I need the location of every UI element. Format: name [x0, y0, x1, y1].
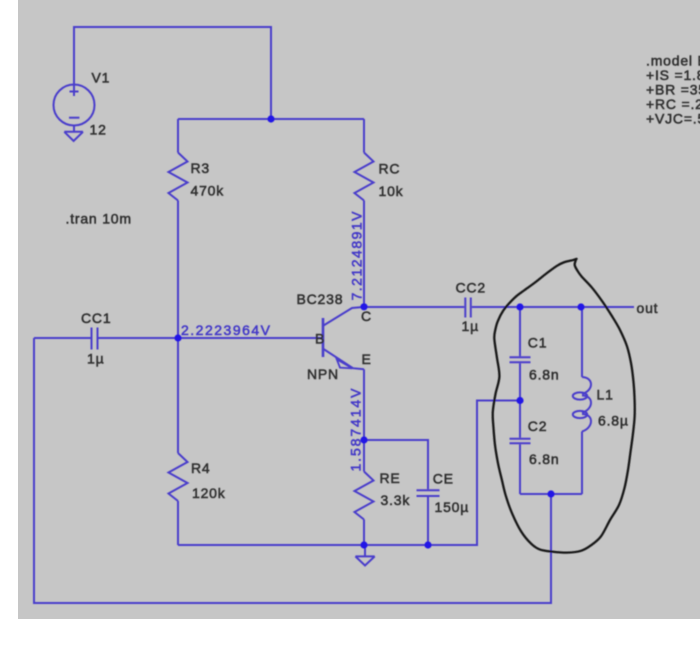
svg-text:+VJC=.58: +VJC=.58 [646, 111, 700, 127]
svg-text:BC238: BC238 [297, 291, 344, 307]
svg-text:NPN: NPN [307, 366, 339, 382]
svg-text:V1: V1 [92, 70, 111, 86]
svg-text:CC1: CC1 [81, 310, 111, 326]
svg-text:120k: 120k [192, 485, 226, 501]
svg-text:10k: 10k [379, 183, 404, 199]
svg-text:470k: 470k [191, 183, 225, 199]
svg-text:C2: C2 [528, 418, 548, 434]
svg-text:L1: L1 [597, 387, 614, 403]
svg-text:12: 12 [90, 122, 107, 138]
svg-text:RE: RE [380, 470, 401, 486]
svg-text:CE: CE [433, 471, 454, 487]
svg-text:C: C [361, 308, 372, 324]
svg-text:RC: RC [379, 161, 401, 177]
svg-text:3.3k: 3.3k [381, 492, 411, 508]
svg-text:CC2: CC2 [456, 280, 486, 296]
svg-text:2.2223964V: 2.2223964V [181, 322, 272, 338]
svg-text:6.8µ: 6.8µ [598, 413, 629, 429]
svg-text:E: E [362, 351, 372, 367]
svg-text:C1: C1 [528, 335, 548, 351]
svg-text:B: B [315, 331, 325, 347]
svg-text:1µ: 1µ [462, 318, 479, 334]
svg-text:6.8n: 6.8n [529, 367, 559, 383]
svg-text:1.587414V: 1.587414V [348, 387, 364, 472]
svg-text:out: out [637, 300, 659, 316]
svg-text:R3: R3 [191, 160, 211, 176]
svg-text:6.8n: 6.8n [529, 451, 559, 467]
svg-text:.tran 10m: .tran 10m [66, 211, 132, 227]
svg-text:R4: R4 [191, 460, 211, 476]
svg-text:7.2124891V: 7.2124891V [349, 210, 365, 301]
svg-text:150µ: 150µ [435, 499, 470, 515]
svg-text:1µ: 1µ [87, 351, 104, 367]
